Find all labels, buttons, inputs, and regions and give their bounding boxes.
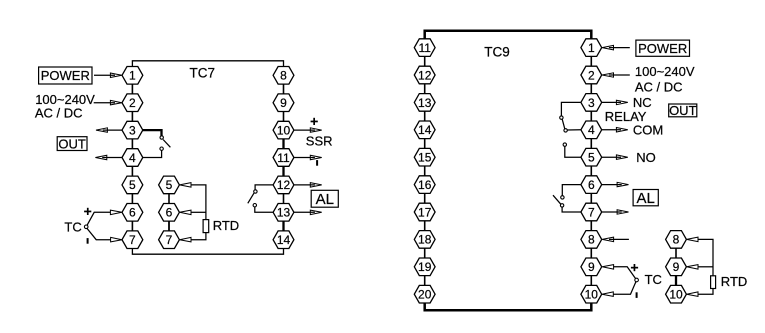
svg-text:2: 2 <box>129 96 136 110</box>
wire TC9 pin15-pin16 <box>424 166 426 176</box>
wire COM contact to pin 4 <box>567 129 581 131</box>
terminal 20 (TC9) <box>414 285 435 303</box>
svg-text:7: 7 <box>166 233 173 247</box>
svg-text:NC: NC <box>633 95 652 110</box>
wire RTD pin8-pin9 (TC9) <box>675 248 677 258</box>
terminal 6 (TC7) <box>122 204 143 222</box>
svg-text:COM: COM <box>633 122 663 137</box>
wire TC9 pin13-pin14 <box>424 111 426 121</box>
terminal 5 (TC7) <box>122 176 143 194</box>
polarity - (TC7 thermocouple) <box>87 238 89 244</box>
wire TC+ lead into pin 9 <box>602 265 635 279</box>
wire arrow into pin 2 (TC7 power) <box>94 100 122 105</box>
svg-text:8: 8 <box>588 233 595 247</box>
svg-text:5: 5 <box>588 151 595 165</box>
TC7 outline top wire <box>132 61 283 67</box>
terminal 4 (TC9) <box>581 121 602 139</box>
polarity + (TC7 thermocouple) <box>84 208 91 215</box>
terminal 10 (TC9 RTD) <box>666 285 687 303</box>
polarity - (TC9 thermocouple) <box>636 292 638 298</box>
wire TC9 pin5-pin6 <box>590 166 592 176</box>
terminal 3 (TC7) <box>122 121 143 139</box>
wire TC9 pin2-pin3 <box>590 84 592 94</box>
wire pin 12 to contact <box>255 185 273 190</box>
svg-text:OUT: OUT <box>669 103 697 118</box>
wire pin 6 to contact <box>562 185 581 196</box>
polarity + (TC9 thermocouple) <box>631 264 638 271</box>
wire RTD middle lead (TC7) <box>191 211 206 213</box>
label AL (TC9) <box>633 190 658 208</box>
polarity + (SSR) <box>311 118 318 125</box>
wire TC9 pin9-pin10 <box>590 276 592 286</box>
svg-text:18: 18 <box>418 233 432 247</box>
wire TC9 pin16-pin17 <box>424 193 426 203</box>
svg-text:16: 16 <box>418 178 432 192</box>
contact circle upper (TC7 out relay) <box>160 136 163 139</box>
terminal 3 (TC9) <box>581 94 602 112</box>
svg-text:13: 13 <box>277 206 291 220</box>
wire TC9 pin19-pin20 <box>424 276 426 286</box>
wire TC7 pin3-pin4 <box>131 139 133 149</box>
wire TC+ lead to pin 6 <box>87 210 122 225</box>
wire arrow out of pin 4 (COM) <box>602 128 628 133</box>
terminal 7 (TC9) <box>581 203 602 221</box>
arrowhead into RTD pin 8 (TC9) <box>687 237 698 242</box>
wire RTD pin5-pin6 (TC7) <box>168 194 170 204</box>
TC9 outline top wire (thick) <box>425 31 592 39</box>
terminal 11 (TC9) <box>414 39 435 57</box>
terminal 4 (TC7) <box>122 149 143 167</box>
arrowhead into RTD pin 10 (TC9) <box>687 292 698 297</box>
contact circle COM <box>564 129 567 132</box>
wire arrow out of pin 4 (TC7 OUT) <box>95 155 122 160</box>
wire TC7 pin8-pin9 <box>283 84 285 94</box>
svg-text:AL: AL <box>316 191 334 208</box>
wire arrow out of pin 12 (AL) <box>294 183 322 188</box>
terminal 7 (TC7) <box>122 231 143 249</box>
terminal 14 (TC9) <box>414 121 435 139</box>
terminal 7 (TC7 RTD) <box>159 231 180 249</box>
terminal 10 (TC9) <box>581 285 602 303</box>
wire RTD bus (TC9) <box>698 239 713 294</box>
terminal 17 (TC9) <box>414 203 435 221</box>
wire TC9 pin8-pin9 <box>590 248 592 258</box>
terminal 8 (TC9 RTD) <box>666 231 687 249</box>
wire pin 3 to contact (thick) <box>143 130 162 136</box>
svg-text:TC: TC <box>645 272 662 287</box>
svg-text:7: 7 <box>129 233 136 247</box>
svg-text:4: 4 <box>129 151 136 165</box>
contact circle lower (TC9 alarm) <box>560 204 563 207</box>
svg-text:POWER: POWER <box>638 41 687 56</box>
terminal 18 (TC9) <box>414 231 435 249</box>
svg-text:OUT: OUT <box>58 136 86 151</box>
contact circle lower (TC7 out relay) <box>160 147 163 150</box>
label OUT (TC9) <box>669 103 697 118</box>
svg-text:15: 15 <box>418 151 432 165</box>
wire TC- lead to pin 7 <box>87 229 122 242</box>
svg-text:5: 5 <box>166 178 173 192</box>
terminal 1 (TC7) <box>122 67 143 85</box>
wire arrow out of pin 3 (NC) <box>602 100 628 105</box>
wire TC9 pin3-pin4 <box>590 111 592 121</box>
RTD element resistor (TC9) <box>711 276 716 289</box>
contact circle NC <box>560 116 563 119</box>
terminal 8 (TC9) <box>581 231 602 249</box>
label POWER (TC7) <box>39 67 92 84</box>
wire TC9 pin18-pin19 <box>424 248 426 258</box>
terminal 5 (TC7 RTD) <box>159 176 180 194</box>
wire contact to pin 7 <box>562 207 581 212</box>
wire arrow out of pin 3 (TC7 OUT) <box>96 128 122 133</box>
svg-text:TC: TC <box>64 219 81 234</box>
switch blade (relay NC-COM) <box>562 119 565 129</box>
svg-text:10: 10 <box>277 123 291 137</box>
svg-text:1: 1 <box>588 41 595 55</box>
terminal 6 (TC9) <box>581 176 602 194</box>
wire TC- lead into pin 10 <box>602 282 636 297</box>
svg-text:20: 20 <box>418 288 432 302</box>
wire arrow out of pin 5 (NO) <box>602 155 628 160</box>
wire TC7 pin12-pin13 <box>283 194 285 204</box>
svg-text:AC / DC: AC / DC <box>635 79 683 94</box>
wire arrow into pin 8 (TC9 shield) <box>602 237 629 242</box>
wire arrow out of pin 13 (AL) <box>294 210 322 215</box>
label AL (TC7) <box>311 190 338 208</box>
svg-text:3: 3 <box>129 123 136 137</box>
wire TC9 pin12-pin13 <box>424 84 426 94</box>
contact circle upper (TC7 alarm) <box>254 190 257 193</box>
wire arrow out of pin 10 (SSR +) <box>294 128 322 133</box>
terminal 12 (TC9) <box>414 66 435 84</box>
svg-text:3: 3 <box>588 96 595 110</box>
wire TC9 pin17-pin18 <box>424 221 426 231</box>
svg-text:TC9: TC9 <box>484 44 510 59</box>
terminal 13 (TC7) <box>273 204 294 222</box>
RTD element resistor (TC7) <box>203 220 209 233</box>
svg-text:10: 10 <box>585 288 599 302</box>
svg-text:6: 6 <box>166 206 173 220</box>
svg-text:RTD: RTD <box>721 274 747 289</box>
TC junction circle (TC7) <box>84 225 88 229</box>
svg-text:12: 12 <box>277 178 291 192</box>
wire TC7 pin10-pin11 <box>282 139 284 149</box>
TC7 outline bottom wire <box>132 248 283 254</box>
wire TC7 pin1-pin2 <box>131 84 133 94</box>
wire TC9 pin4-pin5 <box>590 139 592 149</box>
svg-text:14: 14 <box>418 123 432 137</box>
wire TC7 pin6-pin7 <box>131 221 133 231</box>
arrowhead into RTD pin 5 <box>180 183 191 188</box>
wire TC9 pin1-pin2 <box>590 56 592 66</box>
svg-text:2: 2 <box>588 68 595 82</box>
wire TC9 pin7-pin8 <box>590 221 592 231</box>
wire TC9 pin11-pin12 <box>424 56 426 66</box>
svg-text:100~240V: 100~240V <box>635 64 695 79</box>
svg-text:6: 6 <box>129 206 136 220</box>
svg-text:1: 1 <box>129 69 136 83</box>
switch blade (TC7 alarm) <box>248 193 254 203</box>
terminal 2 (TC9) <box>581 66 602 84</box>
svg-text:17: 17 <box>418 205 432 219</box>
terminal 14 (TC7) <box>273 231 294 249</box>
svg-text:13: 13 <box>418 96 432 110</box>
svg-text:11: 11 <box>418 41 431 55</box>
wire TC9 pin6-pin7 <box>590 193 592 203</box>
wire pin 3 to NC contact <box>561 102 581 116</box>
terminal 8 (TC7) <box>273 67 294 85</box>
terminal 2 (TC7) <box>122 94 143 112</box>
wire RTD pin9-pin10 (TC9) <box>675 276 677 286</box>
terminal 9 (TC9) <box>581 258 602 276</box>
wire arrow into pin 1 (TC9 power) <box>602 45 630 50</box>
svg-text:10: 10 <box>669 288 683 302</box>
wire TC7 pin4-pin5 <box>131 166 133 176</box>
svg-text:SSR: SSR <box>306 134 333 149</box>
arrowhead into RTD pin 7 <box>180 237 191 242</box>
wire arrow into pin 1 (TC7 power) <box>94 73 122 78</box>
TC junction circle (TC9) <box>635 278 639 282</box>
wire arrow into pin 2 (TC9 power) <box>602 73 630 77</box>
wire arrow out of pin 11 (SSR -) <box>294 155 322 160</box>
terminal 9 (TC7) <box>273 94 294 112</box>
wire RTD pin6-pin7 (TC7) <box>168 221 170 231</box>
contact circle upper (TC9 alarm) <box>561 196 564 199</box>
svg-text:8: 8 <box>280 69 287 83</box>
switch blade (TC9 alarm) <box>553 195 561 204</box>
contact circle NO <box>563 143 566 146</box>
terminal 11 (TC7) <box>273 149 294 167</box>
svg-text:4: 4 <box>588 123 595 137</box>
svg-text:19: 19 <box>418 260 432 274</box>
terminal 12 (TC7) <box>273 176 294 194</box>
wire contact to pin 4 <box>143 150 162 157</box>
terminal 5 (TC9) <box>581 148 602 166</box>
svg-text:TC7: TC7 <box>190 65 216 80</box>
wire TC7 pin11-pin12 <box>282 166 284 176</box>
wire TC9 pin14-pin15 <box>424 139 426 149</box>
terminal 10 (TC7) <box>273 121 294 139</box>
svg-text:POWER: POWER <box>41 68 90 83</box>
contact circle lower (TC7 alarm) <box>253 204 256 207</box>
svg-text:AC / DC: AC / DC <box>35 106 83 121</box>
svg-text:7: 7 <box>588 205 595 219</box>
terminal 15 (TC9) <box>414 148 435 166</box>
TC9 outline bottom wire (thick) <box>425 303 592 310</box>
terminal 13 (TC9) <box>414 94 435 112</box>
wire RTD middle lead (TC9) <box>698 266 713 268</box>
label OUT (TC7) <box>57 136 87 151</box>
arrowhead into RTD pin 6 <box>180 210 191 215</box>
svg-text:12: 12 <box>418 68 432 82</box>
svg-text:9: 9 <box>673 260 680 274</box>
svg-text:14: 14 <box>277 233 291 247</box>
arrowhead into RTD pin 9 (TC9) <box>687 265 698 270</box>
wire arrow out of pin 7 (AL) <box>602 210 629 215</box>
wire arrow out of pin 6 (AL) <box>602 182 629 187</box>
terminal 19 (TC9) <box>414 258 435 276</box>
terminal 6 (TC7 RTD) <box>159 204 180 222</box>
svg-text:6: 6 <box>588 178 595 192</box>
svg-text:9: 9 <box>588 260 595 274</box>
terminal 9 (TC9 RTD) <box>666 258 687 276</box>
svg-text:11: 11 <box>277 151 290 165</box>
wire TC7 pin9-pin10 <box>283 112 285 122</box>
wire TC7 pin13-pin14 <box>282 221 284 231</box>
wire NO contact to pin 5 <box>565 146 581 157</box>
svg-text:RTD: RTD <box>213 218 239 233</box>
polarity - (SSR) <box>316 160 318 166</box>
switch blade (TC7 out relay) <box>163 140 170 148</box>
terminal 1 (TC9) <box>581 39 602 57</box>
wire RTD bus (TC7) <box>191 185 206 240</box>
svg-text:NO: NO <box>636 150 656 165</box>
svg-text:9: 9 <box>280 96 287 110</box>
svg-text:8: 8 <box>673 233 680 247</box>
svg-text:AL: AL <box>637 190 655 207</box>
label POWER (TC9) <box>636 40 690 56</box>
wire TC7 pin2-pin3 <box>131 112 133 122</box>
wire TC7 pin5-pin6 <box>131 194 133 204</box>
svg-text:5: 5 <box>129 178 136 192</box>
terminal 16 (TC9) <box>414 176 435 194</box>
wire contact to pin 13 <box>255 207 273 212</box>
